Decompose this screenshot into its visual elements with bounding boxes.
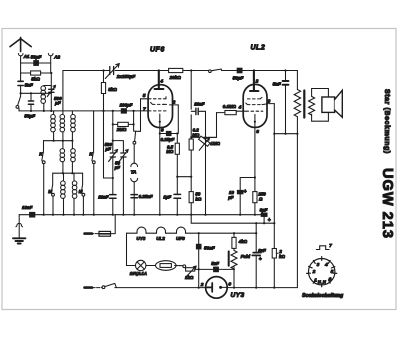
svg-text:5kΩ: 5kΩ [31,76,40,81]
svg-text:4: 4 [238,104,242,110]
svg-text:pF: pF [114,165,121,170]
trimmer 500pF (A2 line) [50,73,53,86]
switch K right [92,111,94,161]
wire chain left drop [127,233,136,265]
node trimmer branch [113,141,124,153]
svg-text:1kΩ: 1kΩ [185,275,194,280]
resistor 50kohm [190,177,192,215]
svg-text:kΩ: kΩ [279,254,285,259]
svg-text:UY3: UY3 [136,236,145,241]
coil L4 (RF transformer right) [71,111,73,115]
svg-text:TA: TA [131,169,137,174]
svg-text:A2: A2 [53,55,60,60]
output transformer secondary [309,96,315,115]
wire to antenna coil [21,88,52,94]
resistor 20kohm [169,68,183,72]
svg-text:µF: µF [227,195,234,200]
svg-text:10V,0.1A: 10V,0.1A [130,271,147,276]
svg-text:5nF: 5nF [211,261,219,266]
UL2 grid cap pin 2 [250,71,258,92]
node mid coil bus [53,172,83,174]
switch antenna [18,96,21,105]
svg-text:4: 4 [324,262,328,268]
node UF6 grid cap [158,69,160,71]
svg-text:3: 3 [268,98,271,104]
svg-text:6: 6 [161,127,164,133]
svg-text:2: 2 [200,282,204,288]
resistor 5kohm osc [103,71,105,111]
heater UL2 [157,227,166,233]
wire grid line y111 [94,110,141,112]
heater UF6 [177,227,186,233]
node var-cap / 5k [102,69,104,71]
svg-text:1µF: 1µF [163,194,171,199]
UL2 grid g3 (pin 4 wire) [236,110,263,112]
svg-text:1: 1 [314,277,317,283]
svg-text:3: 3 [317,262,320,268]
wire screen line x191 [190,71,192,138]
antenna [10,37,31,51]
wire 0.1M drop [208,113,216,138]
ground [13,238,25,243]
tube UY3 [206,277,228,299]
switch TA [134,124,136,141]
svg-text:2x258pF: 2x258pF [116,74,136,79]
svg-text:7: 7 [143,106,146,112]
UL2 cathode pin 8 [254,114,256,121]
svg-text:0.25µF: 0.25µF [161,137,175,142]
UY3 cathode dot [219,286,222,289]
resistor 5kohm antenna [21,72,51,74]
capacitor 5nF hum [199,268,235,270]
svg-text:UL2: UL2 [156,236,165,241]
wire ballast-pot [175,265,183,267]
svg-text:50pF: 50pF [233,76,244,81]
socket top cap 7 [316,246,329,250]
svg-text:UL2: UL2 [251,45,266,52]
coil L7 (osc lower-left) [63,173,65,181]
wire bus2 [191,215,274,224]
svg-text:5kΩ: 5kΩ [108,87,117,92]
jack TA [131,163,138,166]
output transformer primary [296,71,298,90]
heater UY3 [137,227,146,233]
svg-text:4kΩ: 4kΩ [238,239,248,244]
wire to 0.2M line [177,176,191,178]
UF6 grid cap pin 4 [155,71,164,90]
svg-text:pF: pF [104,146,111,151]
node cathode RC [176,176,178,178]
capacitor 10nF ground [19,214,42,216]
wire top main [63,70,298,72]
svg-text:pF: pF [54,101,61,106]
svg-text:50pF: 50pF [24,113,35,118]
node pot/50nF [198,268,200,270]
svg-text:2: 2 [255,79,259,85]
UF6 cathode pin 6 [159,114,161,122]
wire pin5 drop [136,99,141,132]
svg-text:6: 6 [228,281,231,287]
UL2 anode pin 3 [262,104,274,105]
wire y137 [191,136,216,138]
switch M right [81,173,83,193]
wire bus right up [296,134,298,288]
svg-text:UGW 213: UGW 213 [379,168,395,239]
resistor 4kohm [233,232,235,234]
node UL2 grid cap [253,69,255,71]
wire plate down [273,104,275,134]
switch K left [42,141,44,161]
svg-text:Star (Beckmung): Star (Beckmung) [383,89,390,154]
svg-text:8µF: 8µF [260,207,268,212]
svg-text:kΩ: kΩ [195,196,201,201]
svg-text:MΩ: MΩ [166,149,174,154]
wire coil top tap [44,86,51,88]
svg-text:7: 7 [329,243,332,248]
wire bottom bus right [227,287,297,289]
UY3 anode bar [206,283,213,292]
svg-text:MΩ: MΩ [192,132,200,137]
svg-text:1MΩ: 1MΩ [210,141,220,146]
resistor 0.1Mohm [217,111,237,112]
capacitor 10nF screen [191,111,205,137]
capacitor 50pF shunt [28,101,33,104]
node coil bus [44,140,73,142]
capacitor 50nF [198,233,200,269]
switch mains [102,286,105,289]
electrolytic 8uF filter [255,223,257,233]
svg-text:50nF: 50nF [204,245,215,250]
svg-text:20kΩ: 20kΩ [169,75,182,80]
svg-text:A1: A1 [23,54,30,59]
node 5nF drop [284,69,286,71]
UL2 grid g1 dashes [247,97,262,99]
svg-text:0.25nF: 0.25nF [139,194,153,199]
svg-text:50pF: 50pF [31,55,42,60]
ground terminal [16,223,23,226]
UF6 grid g2 [151,102,166,104]
capacitor 5nF (plate bypass) [285,71,287,134]
svg-text:+: + [259,257,262,263]
transformer core [303,91,305,118]
svg-text:UF6: UF6 [176,236,185,241]
svg-text:6: 6 [329,276,332,282]
svg-text:5: 5 [143,93,146,99]
svg-text:Sockelschaltung: Sockelschaltung [302,293,344,299]
coil L3 (RF transformer mid) [62,71,64,115]
resistor mains series [99,231,111,236]
coil L8 (osc lower-right) [73,173,75,181]
ballast Urdox [156,261,177,271]
socket pins [307,257,337,287]
resistor 250ohm [253,192,257,203]
svg-text:2: 2 [172,99,176,105]
capacitor 5nF (A1 series) [18,81,23,85]
switch band [209,70,212,73]
UF6 grid g3 (pin 7 wire) [141,110,167,112]
wire A1 down [20,63,22,96]
wire A1-A2 top [21,62,51,64]
node after 20k [190,69,192,71]
antenna coil L1 [43,85,45,88]
svg-text:UF6: UF6 [150,47,165,54]
svg-text:4: 4 [159,78,163,84]
svg-text:5nF: 5nF [25,82,33,87]
svg-text:8: 8 [256,129,259,135]
svg-text:100pF: 100pF [120,102,133,107]
UF6 anode pin 2 [163,103,178,106]
svg-text:0.1MΩ: 0.1MΩ [223,104,237,109]
trimmer 50pF [121,153,126,157]
svg-text:10nF: 10nF [194,101,205,106]
resistor 0.5Mohm [176,132,178,134]
lamp 10V 0.1A [136,260,146,270]
UL2 grid g2 dashes [246,103,260,105]
capacitor 50pF (A1-A2 series) [34,61,39,66]
node A1/coil junction [20,92,22,94]
socket circle [309,259,335,285]
mains lead bottom [92,287,102,289]
electrolytic 8uF bus [261,213,267,216]
capacitor 50pF coupling [237,68,242,73]
coil L2 (RF transformer left) [53,111,55,115]
svg-text:Feld: Feld [241,254,251,259]
UF6 grid g1 (pin 5 wire) [141,97,167,99]
svg-text:10nF: 10nF [98,194,109,199]
wire main bus [42,214,264,216]
node 2M left / right [112,110,114,112]
svg-text:5nF: 5nF [273,82,281,87]
rheostat 1kohm [186,268,195,271]
wire bottom antenna section [19,110,94,112]
svg-text:8µF: 8µF [258,248,266,253]
resistor 2kohm bleeder [273,223,275,287]
svg-text:UY3: UY3 [231,292,245,299]
svg-text:10nF: 10nF [22,205,33,210]
svg-text:+: + [244,189,247,195]
capacitor 1uF [176,177,178,215]
node 5k join [104,111,113,178]
mains lead top [86,233,99,235]
socket diagram [307,243,337,287]
svg-text:5: 5 [331,269,334,275]
electrolytic 10uF [240,178,255,215]
field coil Feld [231,250,237,269]
coil L5 (osc transformer upper-left) [62,141,64,149]
potentiometer 1Mohm [199,136,210,146]
speaker [322,97,335,112]
heater chain wire [127,232,257,234]
capacitor 100pF [121,109,126,113]
wire pin2 drop [177,105,179,134]
resistor 2Mohm [113,123,134,125]
capacitor 10nF agc [112,178,114,215]
coil L6 (osc transformer upper-right) [71,141,73,149]
variable capacitor 2x258pF [110,67,114,75]
switch M left [51,173,53,193]
wire lamp-ballast [146,265,156,267]
capacitor 0.25uF (cathode) [160,133,178,135]
svg-text:2: 2 [312,269,316,275]
svg-text:2MΩ: 2MΩ [116,127,127,132]
terminal A1 [18,54,23,56]
capacitor 0.25nF [131,195,137,198]
terminal A2 [48,54,53,56]
svg-text:M: M [79,189,83,194]
trimmer 500pF padder [112,124,114,176]
svg-text:Ω: Ω [258,196,263,201]
svg-text:M: M [48,189,52,194]
